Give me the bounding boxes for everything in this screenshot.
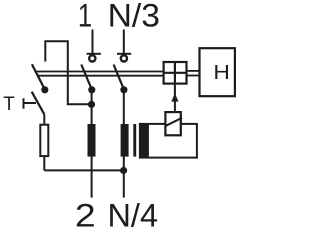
svg-text:2: 2 (75, 197, 96, 231)
svg-text:T: T (3, 94, 15, 115)
svg-text:N/4: N/4 (108, 197, 159, 231)
svg-text:N/3: N/3 (108, 0, 160, 34)
svg-text:1: 1 (78, 0, 92, 34)
svg-text:H: H (213, 61, 230, 84)
